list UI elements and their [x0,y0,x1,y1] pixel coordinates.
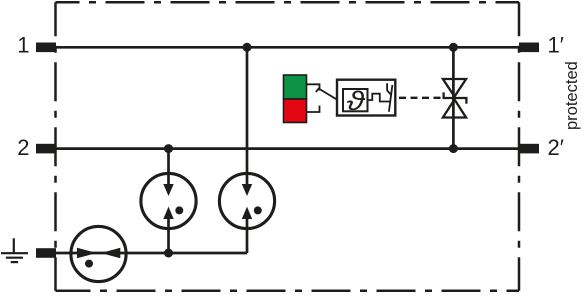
node junction on line 1 at x=453 [449,43,458,52]
indicator green square [284,75,307,99]
wire vertical from node on line 2 to gas discharge tube F2 [167,149,170,185]
enclosure dash-dot border left [54,2,57,291]
gas discharge tube F2 (vertical, middle) [141,173,196,228]
indicator red square [284,99,307,123]
disconnect switch inside box [387,83,392,112]
svg-text:2: 2 [17,135,29,160]
dashed actuation line to suppressor diode [399,97,442,99]
step signal line inside box [368,94,391,102]
bidirectional suppressor diode V1 [443,79,468,118]
thermal disconnect box U1 [337,80,395,116]
wire vertical through suppressor diode between line 1 and line 2 [452,47,455,148]
terminal ground block [36,248,56,258]
node junction on line 2 at x=453 [449,144,458,153]
terminal 2 block [36,144,56,154]
node junction on ground line at x=168.5 [164,249,173,258]
enclosure dash-dot border top [56,1,520,4]
terminal 2' block [519,144,539,154]
wire from gas discharge tube F3 bottom to ground line [246,219,249,253]
wire ground line [56,252,247,255]
svg-text:1: 1 [17,32,29,57]
wire vertical from node on line 1 to gas discharge tube F3 [246,47,249,185]
signalling contact wiring [307,84,339,112]
thermal element inner box [343,89,368,111]
wire line 1 [56,46,519,49]
node junction on line 2 at x=168.5 [164,144,173,153]
enclosure dash-dot border right [518,2,521,291]
ground symbol [1,238,28,262]
svg-text:protected: protected [563,61,581,130]
gas discharge tube F3 (vertical, right) [219,173,274,228]
contact blade [319,89,338,101]
wire line 2 [56,147,519,150]
enclosure dash-dot border bottom [56,290,520,293]
svg-text:1′: 1′ [548,32,564,57]
svg-text:ϑ: ϑ [347,86,367,116]
svg-text:2′: 2′ [548,135,564,160]
node junction on line 1 at x=247 [243,43,252,52]
gas discharge tube F1 (horizontal, on ground line) [71,226,126,281]
terminal 1 block [36,43,56,53]
terminal 1' block [519,43,539,53]
wire from gas discharge tube F2 bottom to ground line [167,219,170,253]
